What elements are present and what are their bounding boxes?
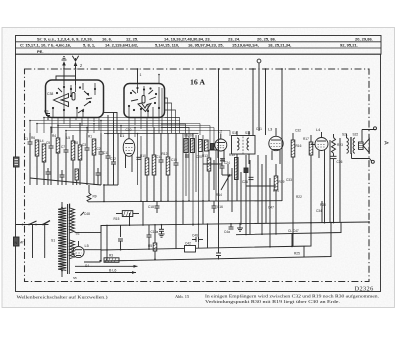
capacitor C13 [60, 170, 65, 185]
svg-text:C31: C31 [256, 127, 262, 131]
svg-text:N: N [15, 240, 18, 245]
AF coupling parts on buses [104, 242, 221, 263]
svg-text:23, 24.: 23, 24. [228, 36, 240, 41]
svg-text:R3: R3 [109, 254, 113, 258]
terminal block lower left [14, 237, 20, 246]
wire feed from frame top to wafer S2 [137, 69, 139, 84]
svg-text:B L6: B L6 [109, 269, 116, 273]
coil L5a [67, 135, 75, 185]
svg-text:R22: R22 [296, 195, 302, 199]
svg-text:C18: C18 [148, 205, 154, 209]
svg-text:D2326: D2326 [355, 286, 374, 293]
selector arrow [54, 94, 69, 107]
svg-text:C1: C1 [24, 137, 28, 141]
capacitor C45 [46, 168, 51, 185]
tube L2 [215, 130, 227, 163]
table row line 1 [16, 41, 382, 43]
svg-text:C48: C48 [84, 212, 90, 216]
capacitor C3 [82, 133, 90, 185]
svg-text:C32: C32 [295, 129, 301, 133]
wafer S1 terminal stubs [52, 118, 99, 134]
svg-text:S22: S22 [353, 133, 359, 137]
capacitor C43 [216, 247, 221, 260]
wire wafer1 top link [56, 76, 76, 80]
wire speaker to terminal [362, 129, 375, 131]
horizontal link wires [203, 163, 222, 165]
wire antenna drop to wafer S1 [63, 70, 65, 85]
svg-text:L4: L4 [40, 139, 44, 143]
resistor R1 [88, 135, 96, 186]
svg-text:R17: R17 [303, 137, 309, 141]
svg-text:S5: S5 [73, 276, 77, 280]
padder caps left of L1 [103, 112, 118, 185]
svg-text:R19: R19 [279, 180, 285, 184]
svg-text:16 A: 16 A [190, 78, 205, 87]
wire from terminal P down [258, 63, 260, 131]
capacitor C24 [221, 158, 223, 166]
svg-text:S2: S2 [76, 232, 80, 236]
svg-text:R15: R15 [229, 153, 235, 157]
secondary winding S3 [70, 240, 90, 268]
IF transformer S10/S11 [232, 131, 256, 164]
table row line 2 [16, 47, 382, 49]
svg-text:16, 95,97,94,23, 25,: 16, 95,97,94,23, 25, [188, 43, 224, 48]
svg-text:R1: R1 [88, 135, 92, 139]
crossing wires through wafer [137, 84, 139, 94]
bus line A (audio) [89, 201, 282, 202]
mid resistor bank under L1 [140, 121, 179, 201]
contact dots [52, 86, 96, 112]
svg-text:S11: S11 [245, 131, 251, 135]
capacitor C2 [97, 133, 104, 185]
resistor R3 [104, 254, 119, 263]
svg-text:C: 15,17,1, 10, 7 b, 4,6/c,16: C: 15,17,1, 10, 7 b, 4,6/c,16, [20, 43, 71, 48]
junction dots routing band [29, 117, 138, 135]
oscillator coils S8 S9 [184, 134, 202, 160]
svg-text:14, 19,26,27,48,30,84, 23.: 14, 19,26,27,48,30,84, 23. [164, 36, 211, 41]
capacitor C36 [331, 156, 343, 222]
resistor R11 [152, 127, 156, 201]
table row 2 text [20, 43, 358, 48]
svg-text:C9: C9 [44, 110, 48, 114]
bus line B1 [101, 222, 369, 226]
secondary winding S2 [70, 204, 80, 236]
svg-text:R8: R8 [74, 141, 78, 145]
svg-text:R4: R4 [52, 134, 56, 138]
capacitor C1 [24, 133, 33, 185]
svg-text:R25: R25 [294, 252, 300, 256]
terminal circle speaker [374, 127, 377, 130]
svg-text:C38: C38 [47, 92, 53, 96]
svg-text:C10: C10 [126, 128, 132, 132]
loudspeaker [359, 130, 370, 153]
output transformer S20 S21 [340, 133, 372, 223]
svg-text:Wellenbereichschalter auf Kurz: Wellenbereichschalter auf Kurzwellen.) [17, 295, 109, 300]
resistor R19 [274, 164, 284, 234]
svg-text:C33: C33 [286, 178, 292, 182]
long vertical wire node 1 to detector [218, 69, 220, 247]
wire loop rectangles right of S2 [158, 74, 189, 133]
bottom center vertical wires [101, 201, 208, 261]
contact slashes [84, 91, 89, 96]
svg-text:CL C47: CL C47 [288, 229, 299, 233]
svg-text:PE.: PE. [37, 49, 43, 54]
svg-text:L1: L1 [120, 134, 124, 138]
capacitor C4b [118, 238, 123, 240]
junction dots buses [100, 200, 334, 262]
wires detector to AF [227, 164, 229, 201]
svg-text:R9: R9 [93, 195, 97, 199]
svg-text:Abb. 15: Abb. 15 [175, 294, 190, 299]
chassis dash-dot frame [25, 69, 370, 282]
svg-text:C34: C34 [316, 209, 322, 213]
svg-text:20, 29,86.: 20, 29,86. [355, 36, 373, 41]
svg-text:C36: C36 [337, 160, 343, 164]
wire bank bus drop [103, 185, 105, 201]
resistor R18 zigzag [332, 134, 344, 156]
rotor slot [72, 93, 75, 101]
svg-text:C3: C3 [82, 143, 86, 147]
svg-text:R13: R13 [202, 154, 208, 158]
coil L4a [40, 139, 46, 185]
svg-text:16, 6.: 16, 6. [102, 36, 112, 41]
svg-text:R16: R16 [296, 144, 302, 148]
ground symbol right [237, 223, 243, 231]
svg-text:L4: L4 [316, 128, 320, 132]
tube L3 [256, 127, 283, 164]
grid cluster boxes [205, 140, 209, 151]
arrow L6 [73, 269, 136, 280]
wafer switch S2 [124, 84, 165, 118]
left component row: resistor/cap bank [24, 123, 104, 185]
antenna symbol [72, 56, 78, 70]
svg-text:R15: R15 [114, 217, 120, 221]
IF secondary resistor R26 [205, 140, 280, 210]
selector arrow [138, 103, 151, 112]
capacitor C42 box [185, 242, 196, 253]
svg-text:14. 2,119,6/41,6/2,: 14. 2,119,6/41,6/2, [105, 43, 138, 48]
mains switch contacts [16, 221, 50, 258]
svg-text:L3: L3 [268, 128, 272, 132]
capacitor C18 [148, 201, 160, 213]
svg-text:C7: C7 [61, 145, 65, 149]
svg-text:S8, S9: S8, S9 [184, 134, 194, 138]
svg-text:12, 25.: 12, 25. [126, 36, 138, 41]
svg-text:C15: C15 [171, 158, 177, 162]
svg-text:R30: R30 [320, 203, 326, 207]
resistor R8 [74, 123, 82, 185]
svg-text:1: 1 [140, 73, 142, 77]
capacitor C7 [61, 133, 69, 185]
table row 1 text [37, 36, 373, 41]
svg-text:5,14/,15, 110,: 5,14/,15, 110, [155, 43, 179, 48]
resistor R9 [81, 185, 97, 216]
svg-text:C2: C2 [97, 147, 101, 151]
svg-text:20, 25, 86.: 20, 25, 86. [257, 36, 276, 41]
capacitor C14 [156, 133, 164, 201]
wire AVC line [104, 133, 199, 135]
coil L10 [75, 169, 78, 185]
capacitor C5 [46, 127, 54, 186]
svg-text:C42: C42 [185, 242, 191, 246]
routing wire band [30, 118, 230, 151]
tube L1 [120, 128, 142, 201]
diode load box [244, 168, 248, 173]
mains transformer S1 winding [51, 202, 66, 277]
capacitor C8 [96, 168, 101, 185]
second row small parts under bank [46, 168, 105, 201]
capacitor C26 [249, 176, 254, 178]
capacitor C19a [147, 225, 159, 249]
svg-text:C47: C47 [268, 206, 274, 210]
long wires into detector area [183, 133, 216, 248]
wire IF feed [265, 69, 267, 135]
capacitor C16 [212, 201, 224, 213]
svg-text:C16: C16 [217, 205, 223, 209]
svg-text:S1: S1 [51, 239, 55, 243]
svg-text:R12: R12 [162, 152, 168, 156]
crossing wires through wafer [63, 85, 65, 118]
resistor R13 [202, 150, 211, 201]
volume potentiometer arrow [213, 160, 215, 190]
svg-text:C26: C26 [242, 180, 248, 184]
wire HT rail right [281, 69, 283, 201]
rectifier tube L5 [73, 241, 89, 258]
arrow B [75, 265, 138, 268]
svg-text:L5: L5 [67, 136, 71, 140]
resistor R6 [31, 136, 39, 185]
transformer core [68, 204, 70, 274]
svg-text:A: A [383, 141, 389, 145]
svg-text:R5: R5 [148, 244, 152, 248]
svg-text:C12: C12 [110, 157, 116, 161]
bus line B2 [236, 222, 341, 234]
vertical drops right [322, 140, 330, 223]
svg-text:In einigen Empfängern wird zwi: In einigen Empfängern wird zwischen C32 … [205, 294, 379, 299]
svg-text:Sr: 9, u.s., 1,2,3,4, 6, 9,: Sr: 9, u.s., 1,2,3,4, 6, 9, 2,0,26. [37, 36, 93, 41]
resistor R4 [52, 124, 60, 185]
ground symbol (top) [62, 57, 67, 70]
svg-text:L2: L2 [218, 130, 222, 134]
resistor R16 [291, 133, 301, 246]
common bus under bank [30, 178, 101, 185]
svg-text:C24: C24 [224, 161, 230, 165]
bus line B4 [104, 223, 331, 261]
svg-text:R14: R14 [216, 193, 222, 197]
svg-text:18, 25,21,34,: 18, 25,21,34, [268, 43, 291, 48]
terminal block upper left [14, 157, 20, 167]
parts table border [16, 36, 382, 55]
svg-text:S21: S21 [342, 133, 348, 137]
detector area small parts [202, 150, 302, 247]
heater wires from transformer [75, 225, 102, 262]
wafer switch S1 [46, 80, 104, 118]
svg-text:S10: S10 [232, 131, 238, 135]
svg-text:R6: R6 [31, 136, 35, 140]
resistor R20 vertical small [148, 243, 157, 251]
ground symbol mid [159, 225, 165, 238]
svg-text:15,19,6/43,1/4,: 15,19,6/43,1/4, [232, 43, 259, 48]
resistor R12 [162, 133, 170, 201]
svg-text:Verbindungspunkt R30 mit R19 l: Verbindungspunkt R30 mit R19 liegt über … [205, 299, 340, 304]
resistor R15 horizontal [114, 211, 140, 221]
wire L5 cathode [84, 249, 101, 251]
wafer S2 terminal stubs [129, 118, 159, 134]
terminal circle P [257, 59, 261, 63]
resistor R10 [140, 121, 149, 201]
svg-text:92, 95,21.: 92, 95,21. [340, 43, 358, 48]
svg-text:L5: L5 [85, 244, 89, 248]
terminal circle speaker low [371, 160, 374, 163]
svg-text:C4a: C4a [224, 230, 230, 234]
capacitor C4a [224, 223, 234, 234]
svg-text:C5: C5 [46, 141, 50, 145]
bottom right nest verticals [288, 222, 332, 257]
svg-text:R10: R10 [140, 154, 146, 158]
schematic outer frame [16, 54, 381, 291]
bus line B3 [101, 223, 311, 250]
wire osc feed [252, 69, 254, 135]
svg-text:C19a: C19a [151, 230, 159, 234]
resistor R17 [303, 135, 313, 223]
svg-text:C11: C11 [103, 151, 109, 155]
capacitor C46 [195, 237, 197, 242]
tube L4 [311, 128, 328, 223]
capacitor C15 [171, 133, 179, 201]
svg-text:C46: C46 [192, 234, 198, 238]
svg-text:5, 8, 1,: 5, 8, 1, [83, 43, 95, 48]
